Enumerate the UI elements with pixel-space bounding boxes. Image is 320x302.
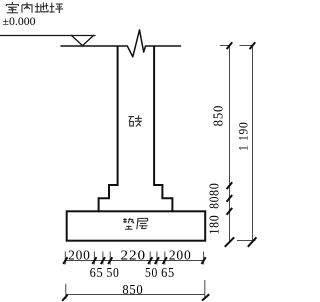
svg-text:1 190: 1 190 [235, 122, 250, 152]
svg-text:200: 200 [68, 247, 91, 262]
svg-text:50: 50 [107, 265, 120, 280]
svg-text:65: 65 [90, 265, 104, 280]
svg-text:±0.000: ±0.000 [3, 14, 36, 28]
svg-text:80: 80 [207, 182, 222, 196]
svg-text:850: 850 [211, 105, 226, 127]
svg-text:220: 220 [121, 247, 147, 262]
svg-text:80: 80 [207, 196, 222, 209]
svg-text:180: 180 [207, 215, 222, 235]
svg-text:200: 200 [169, 247, 192, 262]
svg-text:65: 65 [161, 265, 175, 280]
svg-text:50: 50 [145, 265, 158, 280]
svg-text:850: 850 [122, 283, 143, 298]
